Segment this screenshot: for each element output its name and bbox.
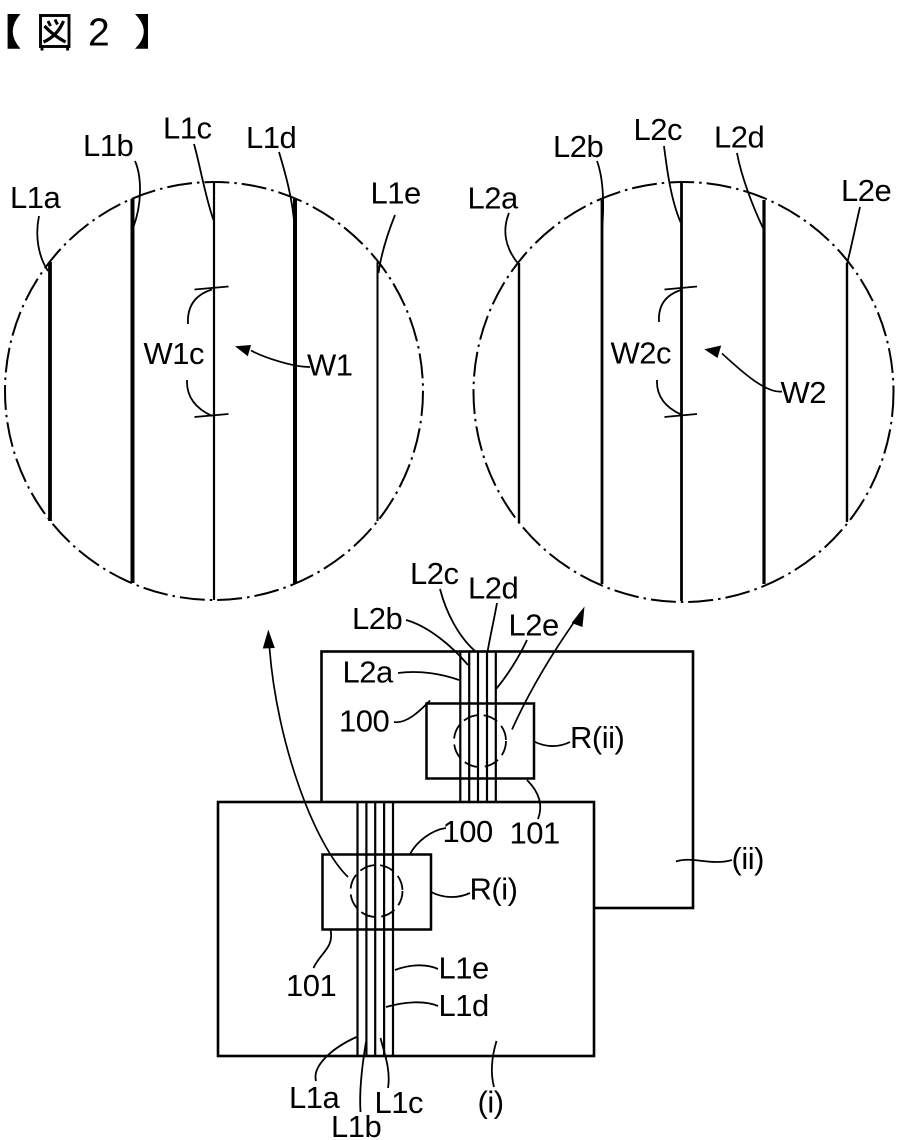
label 100 (substrate ii) + leader [339, 701, 430, 739]
left magnified circle (view of region R(i)) [5, 182, 423, 600]
svg-text:L2c: L2c [634, 112, 682, 147]
label 100 (line, above R(i)) + leader [410, 814, 493, 854]
label W1c with arcs [144, 290, 213, 417]
label L1c (bottom) + leader [375, 1038, 423, 1120]
label L2d (bottom) + leader [468, 571, 518, 653]
label (i) + leader [478, 1041, 504, 1120]
svg-text:101: 101 [286, 968, 336, 1003]
label R(ii) + leader [534, 720, 624, 755]
label 101 (wiring, left of R(i)) + leader [286, 930, 336, 1004]
svg-text:L1d: L1d [439, 988, 489, 1023]
label L2d (right circle) + leader [714, 120, 764, 229]
label W2 with arrow to line L2c [704, 346, 826, 411]
substrate rectangle (i) [218, 802, 594, 1056]
svg-text:L2c: L2c [410, 556, 458, 591]
label L2e (bottom) + leader [496, 608, 559, 690]
label L1d (bottom) + leader [386, 988, 489, 1023]
svg-text:W2: W2 [781, 375, 827, 410]
svg-text:L2d: L2d [714, 120, 764, 155]
svg-text:100: 100 [339, 704, 389, 739]
svg-text:L2a: L2a [343, 655, 394, 690]
right magnified circle (view of region R(ii)) [474, 182, 894, 602]
figure title 【図2】 [8, 12, 148, 55]
svg-text:L1c: L1c [375, 1085, 423, 1120]
label 101 (wiring, under R(ii)) + leader [510, 780, 560, 851]
svg-text:W1c: W1c [144, 336, 205, 371]
svg-text:L2e: L2e [509, 608, 559, 643]
svg-text:L2b: L2b [352, 601, 402, 636]
svg-text:(i): (i) [478, 1085, 504, 1120]
svg-text:L2e: L2e [841, 173, 891, 208]
width ticks W1c [195, 287, 229, 418]
label L1c + leader [163, 111, 214, 221]
svg-text:L1e: L1e [439, 951, 489, 986]
line L1e (left circle) [377, 262, 379, 521]
label L1b + leader [83, 128, 140, 228]
label L1b (bottom) + leader [331, 1042, 381, 1140]
label (ii) + leader [676, 841, 764, 876]
line L2d (right circle) [762, 200, 765, 584]
line L2c (right circle) [680, 183, 683, 601]
svg-text:L2a: L2a [468, 181, 519, 216]
label L1a (bottom) + leader [289, 1037, 357, 1115]
line group L2a-L2e on substrate (ii) [460, 652, 496, 802]
label L2b (right circle) + leader [553, 129, 603, 230]
dashed circle in R(i) [351, 865, 403, 917]
arrow from R(ii) to right circle [512, 607, 585, 730]
arrow from R(i) to left circle [263, 630, 348, 878]
svg-text:L1e: L1e [371, 176, 421, 211]
label R(i) + leader [431, 872, 517, 907]
line L1a (left circle) [48, 262, 52, 521]
label L2c (bottom) + leader [410, 556, 475, 651]
line L2e (right circle) [846, 263, 848, 522]
substrate rectangle (ii) [322, 652, 694, 909]
svg-text:101: 101 [510, 816, 560, 851]
line L2b (right circle) [601, 200, 604, 584]
svg-text:L2d: L2d [468, 571, 518, 606]
svg-text:L1a: L1a [10, 180, 61, 215]
width ticks W2c [665, 287, 698, 418]
svg-text:R(ii): R(ii) [570, 720, 624, 755]
dashed circle in R(ii) [454, 715, 506, 767]
svg-text:W1: W1 [307, 348, 353, 383]
svg-text:100: 100 [443, 814, 493, 849]
svg-text:L1c: L1c [163, 111, 211, 146]
svg-text:(ii): (ii) [732, 841, 764, 876]
svg-text:L1b: L1b [83, 128, 133, 163]
region rectangle R(i) [323, 855, 432, 930]
label L1e (bottom) + leader [395, 951, 489, 986]
label L2a (right circle) + leader [468, 181, 519, 265]
line L1c (left circle) [213, 182, 215, 600]
svg-text:L1d: L1d [246, 120, 296, 155]
label L2c (right circle) + leader [634, 112, 682, 222]
line L2a (right circle) [518, 263, 520, 522]
line L1b (left circle) [131, 199, 135, 583]
svg-text:W2c: W2c [611, 336, 672, 371]
label L1d + leader [246, 120, 296, 227]
label W2c with arcs [611, 290, 682, 415]
svg-text:2: 2 [88, 12, 110, 55]
svg-text:L2b: L2b [553, 129, 603, 164]
label L2e (right circle) + leader [841, 173, 891, 264]
line group L1a-L1e on substrate (i) [358, 802, 394, 1056]
label L2a (bottom) + leader [343, 655, 460, 690]
svg-text:R(i): R(i) [470, 872, 518, 907]
label L1a + leader [10, 180, 61, 271]
region rectangle R(ii) [427, 704, 535, 779]
label W1 with arrow to line L1c [235, 345, 353, 383]
label L2b (bottom) + leader [352, 601, 468, 665]
line L1d (left circle) [293, 199, 297, 583]
label L1e + leader [371, 176, 421, 274]
